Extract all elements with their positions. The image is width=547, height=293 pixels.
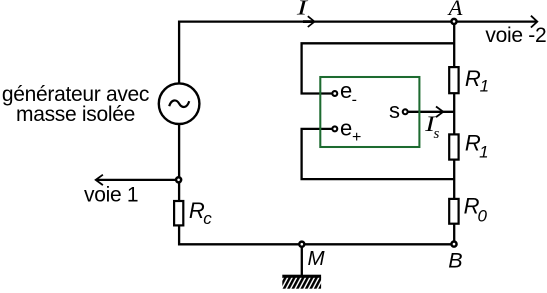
svg-text:c: c [203,209,212,228]
svg-text:A: A [447,0,463,20]
svg-text:s: s [434,126,440,142]
svg-text:masse isolée: masse isolée [16,103,135,126]
svg-text:+: + [352,129,361,146]
svg-text:R: R [465,66,481,91]
svg-text:M: M [308,247,326,270]
svg-text:B: B [448,249,462,273]
svg-text:1: 1 [479,142,488,161]
svg-text:s: s [389,98,400,123]
svg-text:e: e [340,115,352,140]
svg-text:voie 1: voie 1 [84,184,138,207]
svg-text:e: e [340,78,352,103]
svg-text:0: 0 [478,206,488,225]
svg-text:-: - [352,92,357,109]
svg-text:voie -2: voie -2 [485,24,546,47]
svg-text:1: 1 [480,76,489,95]
svg-text:I: I [296,0,309,19]
